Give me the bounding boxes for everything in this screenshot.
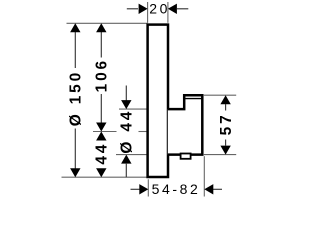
dimension 54-82: right arrow [213,188,222,190]
dimension D44: lower arrow and stem [121,155,131,164]
wire: knob center extension line (left segment) [93,131,117,133]
dimension 54-82: left extension line [147,179,149,196]
svg-text:Ø 44: Ø 44 [119,109,136,154]
dimension 20: right arrow [177,8,188,10]
svg-text:54-82: 54-82 [152,181,201,197]
dimension 20: right extension line [167,2,169,23]
dimension 20: left extension line [147,2,149,23]
svg-text:44: 44 [94,142,111,165]
dimension 106: bottom arrow (meets 44 arrow at knob centre) [96,123,106,132]
faceplate (side profile, 20mm thick) [148,25,168,177]
dimension 44 (lower): top arrow [96,132,106,141]
dimension 20: left arrow [127,8,138,10]
dimension 54-82: left arrow [131,188,140,190]
wire: knob top extension line (left) [119,108,148,110]
dimension 106: line with gap for label [100,32,102,58]
dimension D44: upper stem and arrow [125,86,127,101]
knob bottom tab [181,154,191,159]
svg-text:106: 106 [94,58,111,92]
dimension D150: top arrow [70,23,80,32]
wire: bottom extension line (plate bottom, extended left) [62,176,148,178]
wire: top extension line (plate top, extended left) [67,22,148,24]
dimension 57: top arrow [220,95,230,104]
dimension 57: bottom extension line (right) [204,154,236,156]
dimension 106: top arrow [96,23,106,32]
dimension D150: bottom arrow [70,168,80,177]
wire: knob center extension line (right segment) [139,131,148,133]
knob cap seam line [185,98,202,100]
svg-text:57: 57 [218,112,235,135]
dimension 54-82: right extension line [203,156,205,196]
wire: knob bottom extension line (left) [116,154,148,156]
dimension 57: top extension line (right) [204,94,236,96]
svg-text:20: 20 [149,1,170,17]
svg-text:Ø 150: Ø 150 [68,70,85,126]
dimension 44 (lower): bottom arrow [96,168,106,177]
dimension D150: line with gap for label [74,32,76,68]
thermostat knob body (side profile) [168,95,203,154]
dimension 57: bottom arrow [220,146,230,155]
